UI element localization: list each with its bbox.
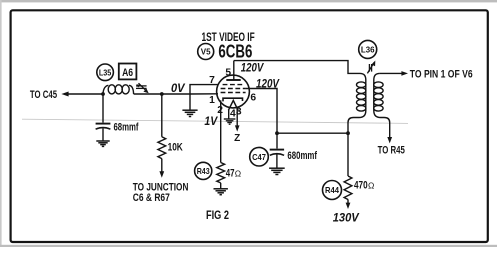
- screen bus wire: [277, 132, 348, 134]
- wire secondary to V6: [380, 72, 403, 74]
- svg-text:5: 5: [225, 68, 231, 79]
- capacitor C47 top plate: [270, 149, 284, 151]
- wire R43 to ground: [220, 183, 222, 189]
- L36 adjustable core: [368, 64, 370, 72]
- pin 6 screen wire: [246, 89, 277, 134]
- svg-text:V5: V5: [201, 48, 211, 57]
- ground pin 4: [224, 119, 236, 124]
- ground 0V: [182, 110, 197, 116]
- plate: [226, 79, 240, 81]
- svg-text:68mmf: 68mmf: [114, 121, 139, 133]
- wire node to C47: [276, 133, 278, 148]
- transformer L36 ref: [359, 40, 377, 58]
- wire up to pin7: [190, 85, 218, 94]
- ground R43: [214, 189, 228, 195]
- svg-text:TO PIN 1 OF V6: TO PIN 1 OF V6: [410, 69, 473, 81]
- resistor R43 47ohm: [217, 163, 225, 183]
- svg-text:47: 47: [226, 167, 235, 179]
- svg-text:R44: R44: [325, 185, 339, 195]
- node C47: [275, 131, 279, 135]
- arrow to 130V: [346, 203, 351, 209]
- svg-text:0V: 0V: [171, 83, 186, 95]
- wire C47 to ground: [276, 154, 278, 167]
- node at L35 left: [101, 92, 105, 96]
- svg-text:120V: 120V: [256, 79, 280, 91]
- svg-text:6: 6: [250, 92, 256, 103]
- wire node to R44: [347, 133, 349, 176]
- ground 68mmf: [96, 141, 109, 146]
- page edge top: [0, 0, 497, 2]
- tube V5 envelope: [217, 75, 250, 108]
- resistor R43 ref: [195, 162, 212, 179]
- arrow to R45: [387, 137, 392, 143]
- capacitor 68mmf curved plate: [96, 128, 111, 130]
- wire down to ground at 0V: [189, 94, 191, 110]
- grid 3 (top row): [223, 84, 243, 86]
- arrow to Z: [235, 125, 240, 131]
- wire down to 10K: [161, 94, 163, 137]
- inductor L35 ref circle: [97, 64, 114, 81]
- page edge bottom: [0, 245, 497, 247]
- node R44/primary: [346, 131, 350, 135]
- svg-text:R43: R43: [197, 166, 210, 176]
- svg-text:C47: C47: [252, 152, 266, 162]
- capacitor C44 branch wire: [102, 94, 104, 123]
- arrow to junction C6/R67: [159, 171, 164, 178]
- wire cap to ground: [102, 128, 104, 140]
- svg-text:L36: L36: [361, 45, 375, 55]
- scan artifact line: [22, 119, 408, 123]
- svg-text:C6 & R67: C6 & R67: [133, 192, 170, 204]
- svg-text:L35: L35: [99, 67, 112, 77]
- resistor 10K: [158, 137, 166, 159]
- resistor R44 ref: [323, 181, 342, 200]
- cathode: [223, 98, 243, 101]
- svg-text:7: 7: [209, 75, 215, 86]
- ground C47: [269, 168, 285, 174]
- svg-text:680mmf: 680mmf: [287, 150, 317, 162]
- transformer secondary winding: [374, 73, 390, 137]
- inductor L35 coil: [103, 85, 108, 94]
- arrow to C45: [61, 92, 68, 97]
- plate lead pin 5: [233, 61, 235, 80]
- capacitor C47 curved plate: [270, 154, 284, 156]
- svg-text:Z: Z: [234, 133, 240, 144]
- heater: [228, 100, 238, 110]
- svg-text:130V: 130V: [333, 213, 360, 225]
- svg-text:470: 470: [354, 180, 368, 192]
- capacitor C47 ref: [250, 147, 269, 166]
- svg-text:TO C45: TO C45: [30, 89, 57, 101]
- wire R44 down: [347, 199, 349, 203]
- svg-text:FIG 2: FIG 2: [206, 210, 229, 222]
- svg-text:6CB6: 6CB6: [218, 41, 252, 61]
- pin 3 wire: [236, 110, 238, 127]
- transformer primary winding: [348, 73, 366, 133]
- wire L35 to grid node: [134, 93, 191, 95]
- svg-text:Ω: Ω: [235, 168, 241, 178]
- wire pin1 into tube: [190, 93, 218, 95]
- grid 1 (bottom row): [221, 92, 246, 94]
- page edge left: [0, 0, 2, 247]
- L35 adjustable core arrows: [136, 85, 147, 87]
- tube designator V5: [198, 44, 214, 60]
- wire below 10K: [161, 159, 163, 172]
- svg-text:10K: 10K: [168, 141, 183, 153]
- alignment box A6: [119, 64, 137, 80]
- svg-text:A6: A6: [122, 67, 133, 79]
- wire to C45: [68, 93, 103, 95]
- svg-text:TO R45: TO R45: [378, 144, 405, 156]
- node 10K branch: [160, 92, 164, 96]
- resistor R44 470ohm: [344, 176, 352, 199]
- plate wire to transformer: [234, 61, 360, 74]
- grid 2 (middle row): [221, 88, 246, 90]
- svg-text:120V: 120V: [241, 63, 265, 75]
- pin 4 wire: [228, 110, 230, 119]
- svg-text:1V: 1V: [204, 116, 218, 128]
- svg-text:1: 1: [209, 95, 215, 106]
- capacitor 68mmf top plate: [96, 123, 111, 125]
- pin 2 cathode wire: [220, 100, 222, 162]
- svg-text:Ω: Ω: [368, 181, 374, 191]
